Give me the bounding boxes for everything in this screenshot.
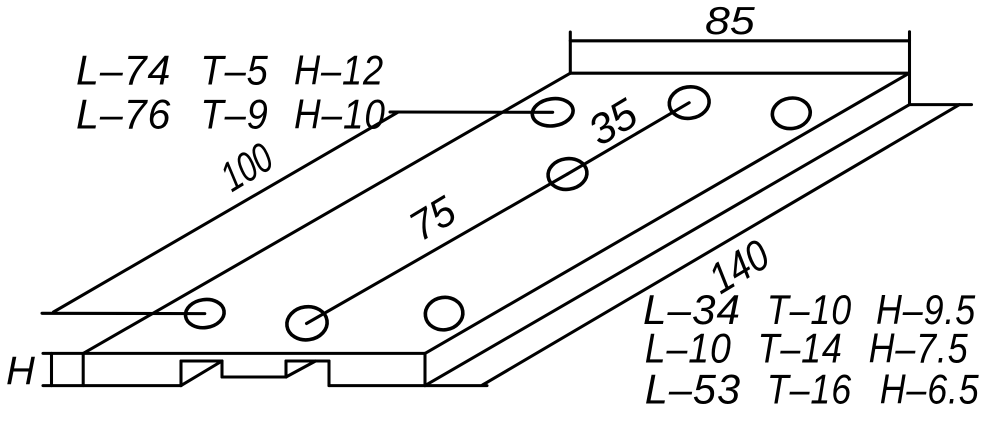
leader line to hole 4 xyxy=(42,312,205,315)
hole 1 xyxy=(531,96,575,128)
svg-text:H: H xyxy=(6,349,35,393)
leader line to hole 1 xyxy=(390,110,553,113)
notch 1 left vertical xyxy=(179,361,182,386)
notch 2 left vertical xyxy=(284,361,287,377)
svg-text:85: 85 xyxy=(705,0,755,43)
svg-text:T–9: T–9 xyxy=(200,91,268,138)
recessed middle bottom edge xyxy=(222,375,286,378)
dimension line 100 xyxy=(54,112,399,312)
hole 6 xyxy=(423,295,465,332)
dimension line 75 xyxy=(307,174,568,324)
notch 2 receding diagonal xyxy=(286,361,316,377)
plate top back edge xyxy=(570,72,909,75)
hole 3 xyxy=(667,84,711,121)
front face top edge with H extension xyxy=(43,352,425,355)
bottom face outer edge xyxy=(483,105,960,385)
dimension line 85 xyxy=(570,39,909,42)
dimension line 35 xyxy=(568,103,690,174)
svg-text:L–76: L–76 xyxy=(76,91,171,138)
notch 2 top edge xyxy=(286,359,329,362)
svg-text:100: 100 xyxy=(212,133,281,200)
hole 5 xyxy=(285,304,330,342)
front face bottom edge right segment xyxy=(329,384,487,387)
hole 4 xyxy=(184,297,226,330)
svg-text:L–74: L–74 xyxy=(76,47,171,94)
extension line left of 85 xyxy=(569,32,572,73)
front face inner vertical xyxy=(82,353,85,385)
plate top-left long edge xyxy=(83,73,570,353)
front face right vertical xyxy=(423,353,426,385)
svg-text:H–10: H–10 xyxy=(294,91,386,138)
plate top-right long edge xyxy=(425,73,909,353)
front face bottom edge left segment with H extension xyxy=(43,384,181,387)
svg-text:75: 75 xyxy=(401,186,465,250)
svg-text:35: 35 xyxy=(581,90,647,155)
hole 7 xyxy=(770,96,812,131)
svg-text:T–5: T–5 xyxy=(200,47,268,94)
bottom face back edge xyxy=(910,103,972,106)
svg-text:H–6.5: H–6.5 xyxy=(880,365,980,412)
notch 1 top edge xyxy=(181,359,222,362)
svg-text:L–53: L–53 xyxy=(645,365,741,412)
hole 2 xyxy=(546,156,589,192)
svg-text:H–12: H–12 xyxy=(294,47,384,94)
notch 1 right vertical xyxy=(220,361,223,377)
notch 1 receding diagonal xyxy=(181,361,222,386)
front face left cap vertical xyxy=(50,353,53,385)
plate lower-right long edge xyxy=(425,105,910,386)
extension line right of 85 / plate right end edge xyxy=(908,32,911,105)
notch 2 right vertical xyxy=(327,361,330,386)
svg-text:T–16: T–16 xyxy=(767,365,852,412)
